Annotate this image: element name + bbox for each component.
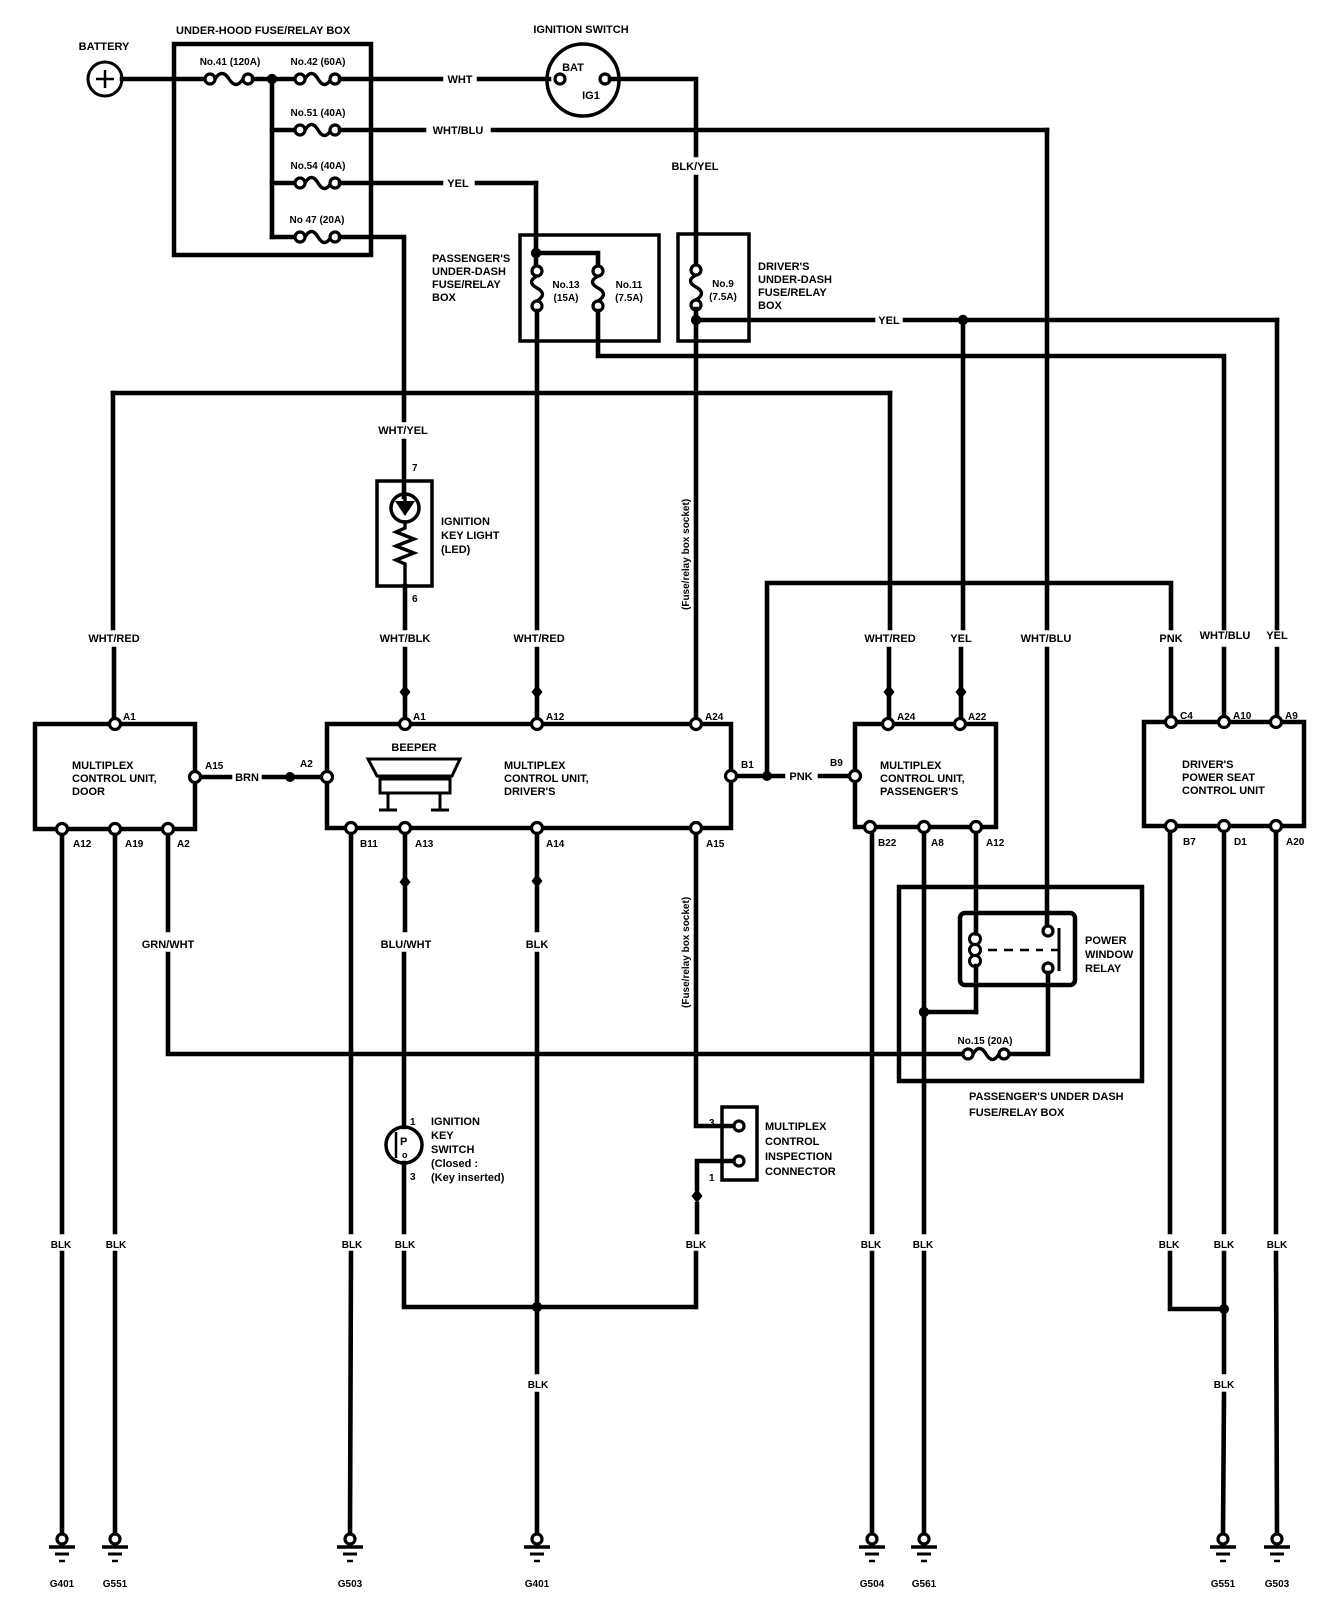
- pin A12 passengers: [971, 822, 1005, 850]
- pin A8 passengers: [919, 822, 945, 850]
- svg-text:1: 1: [410, 1117, 416, 1128]
- svg-text:A15: A15: [706, 839, 725, 850]
- fuse No.9 (7.5A): [691, 234, 737, 310]
- under-hood fuse/relay box: [174, 25, 371, 255]
- svg-text:BLK: BLK: [106, 1240, 127, 1251]
- svg-text:FUSE/RELAY: FUSE/RELAY: [432, 279, 501, 291]
- svg-text:No.15 (20A): No.15 (20A): [957, 1036, 1012, 1047]
- svg-text:WHT/BLK: WHT/BLK: [380, 633, 431, 645]
- ground G561: [911, 1534, 937, 1590]
- wire BLK/YEL fuse9 to driver A24: [694, 309, 699, 718]
- svg-text:(Key inserted): (Key inserted): [431, 1172, 505, 1184]
- svg-text:(Fuse/relay box socket): (Fuse/relay box socket): [681, 897, 692, 1008]
- wire BLK seat D1 to G551: [1214, 832, 1235, 1533]
- svg-text:WHT/RED: WHT/RED: [513, 633, 564, 645]
- wire fuse No.11 to A10 (WHT/BLU): [598, 311, 1250, 718]
- svg-text:No.42 (60A): No.42 (60A): [290, 57, 345, 68]
- svg-text:KEY: KEY: [431, 1130, 454, 1142]
- svg-text:A9: A9: [1285, 711, 1298, 722]
- svg-text:No.13: No.13: [552, 280, 580, 291]
- pin B7 seat: [1166, 821, 1197, 849]
- svg-text:A2: A2: [177, 839, 190, 850]
- relay switch: [988, 926, 1060, 973]
- ground G504: [859, 1534, 885, 1590]
- wire WHT: [340, 74, 549, 86]
- svg-text:BLK: BLK: [686, 1240, 707, 1251]
- pin A12 drivers: [532, 712, 565, 730]
- wire BLK inspection pin1 to bottom bus: [686, 1161, 733, 1307]
- svg-text:POWER: POWER: [1085, 935, 1127, 947]
- svg-text:6: 6: [412, 594, 418, 605]
- svg-text:CONTROL UNIT,: CONTROL UNIT,: [72, 773, 157, 785]
- svg-text:B9: B9: [830, 758, 843, 769]
- svg-text:D1: D1: [1234, 837, 1247, 848]
- pin A2 door: [163, 824, 191, 851]
- wire WHT/RED left to door A1: [88, 393, 139, 718]
- wire WHT/BLK to driver A1: [380, 586, 431, 718]
- connector marker on A22 wire: [956, 685, 967, 699]
- wire fuse41 to fuse42: [253, 77, 295, 82]
- wire YEL down to A9: [1266, 320, 1288, 718]
- wire BLK/YEL: [671, 161, 718, 234]
- svg-text:YEL: YEL: [447, 178, 469, 190]
- multiplex control unit passengers: [855, 724, 996, 827]
- fuse No.41 (120A): [200, 57, 261, 85]
- svg-text:BATTERY: BATTERY: [79, 41, 130, 53]
- pin A2 drivers: [300, 759, 333, 783]
- svg-text:A22: A22: [968, 712, 987, 723]
- pin A14 drivers: [532, 823, 565, 851]
- ignition key switch: [386, 1116, 505, 1184]
- svg-text:PASSENGER'S UNDER DASH: PASSENGER'S UNDER DASH: [969, 1091, 1124, 1103]
- drivers power seat control unit: [1144, 722, 1304, 826]
- wire GRN/WHT door A2 to fuse15 run: [142, 835, 963, 1054]
- node YEL junction in passenger box: [531, 248, 541, 258]
- svg-text:BLU/WHT: BLU/WHT: [381, 939, 432, 951]
- wire drivers A15 to inspection connector pin 3: [696, 834, 732, 1126]
- svg-text:A2: A2: [300, 759, 313, 770]
- svg-text:A20: A20: [1286, 837, 1305, 848]
- svg-text:G551: G551: [1211, 1579, 1236, 1590]
- svg-text:BLK: BLK: [395, 1240, 416, 1251]
- wire BRN A15 to A2: [200, 772, 322, 784]
- wire BLK passengers B22 to G504: [861, 833, 882, 1533]
- battery: [79, 41, 130, 96]
- beeper: [368, 742, 460, 810]
- svg-text:PASSENGER'S: PASSENGER'S: [880, 786, 958, 798]
- svg-text:7: 7: [412, 463, 418, 474]
- svg-text:WHT: WHT: [447, 74, 472, 86]
- wire YEL mid row: [696, 315, 1277, 327]
- node junction bottom bus: [532, 1302, 542, 1312]
- wire BLK door A19 to G551: [106, 835, 127, 1533]
- pin B11 drivers: [346, 823, 379, 851]
- svg-text:CONTROL UNIT,: CONTROL UNIT,: [880, 773, 965, 785]
- svg-text:BLK: BLK: [526, 939, 549, 951]
- svg-text:CONTROL UNIT,: CONTROL UNIT,: [504, 773, 589, 785]
- ground G401: [49, 1534, 75, 1590]
- fuse No.13 (15A): [532, 266, 581, 311]
- wire WHT/YEL from fuse47: [340, 237, 428, 497]
- pin A20 seat: [1271, 821, 1305, 849]
- svg-text:3: 3: [709, 1118, 715, 1129]
- svg-text:MULTIPLEX: MULTIPLEX: [880, 760, 942, 772]
- svg-text:G503: G503: [338, 1579, 363, 1590]
- svg-text:BLK: BLK: [528, 1380, 549, 1391]
- svg-text:MULTIPLEX: MULTIPLEX: [765, 1121, 827, 1133]
- svg-text:A8: A8: [931, 838, 944, 849]
- svg-text:No.9: No.9: [712, 279, 734, 290]
- svg-text:No.54 (40A): No.54 (40A): [290, 161, 345, 172]
- wire passengers A12 to relay coil: [974, 833, 979, 930]
- svg-text:1: 1: [709, 1173, 715, 1184]
- wire to fuse No.11: [536, 253, 598, 266]
- svg-text:G561: G561: [912, 1579, 937, 1590]
- svg-text:IG1: IG1: [582, 90, 600, 102]
- svg-text:YEL: YEL: [950, 633, 972, 645]
- ground G551: [102, 1534, 128, 1590]
- svg-text:(7.5A): (7.5A): [615, 293, 643, 304]
- svg-text:o: o: [402, 1150, 408, 1160]
- wire PNK B1 to B9: [738, 771, 850, 783]
- svg-text:BLK: BLK: [913, 1240, 934, 1251]
- wire WHT/RED right to passenger A24: [864, 393, 915, 718]
- resistor in LED unit: [396, 522, 414, 586]
- svg-text:UNDER-DASH: UNDER-DASH: [758, 274, 832, 286]
- connector marker on A12 wire: [532, 685, 543, 699]
- svg-text:BLK: BLK: [51, 1240, 72, 1251]
- svg-text:No.41 (120A): No.41 (120A): [200, 57, 261, 68]
- node BRN marker: [285, 772, 295, 782]
- node YEL junction mid: [958, 315, 968, 325]
- svg-text:BAT: BAT: [562, 62, 584, 74]
- svg-text:IGNITION SWITCH: IGNITION SWITCH: [533, 24, 628, 36]
- ground G503: [337, 1534, 363, 1590]
- ground G503: [1264, 1534, 1290, 1590]
- svg-text:FUSE/RELAY: FUSE/RELAY: [758, 287, 827, 299]
- svg-text:BLK: BLK: [1214, 1380, 1235, 1391]
- wire battery to fuse box: [122, 77, 205, 82]
- svg-text:WHT/BLU: WHT/BLU: [1021, 633, 1072, 645]
- svg-text:WHT/BLU: WHT/BLU: [433, 125, 484, 137]
- svg-text:DRIVER'S: DRIVER'S: [1182, 759, 1234, 771]
- wire BLK seat B7 to D1 bus: [1159, 832, 1224, 1309]
- fuse No.51 (40A): [272, 108, 346, 136]
- svg-text:WHT/BLU: WHT/BLU: [1200, 630, 1251, 642]
- svg-text:A1: A1: [123, 712, 136, 723]
- svg-text:POWER SEAT: POWER SEAT: [1182, 772, 1255, 784]
- svg-text:(Closed :: (Closed :: [431, 1158, 478, 1170]
- svg-text:UNDER-DASH: UNDER-DASH: [432, 266, 506, 278]
- wire BLK seat A20 to G503: [1267, 832, 1288, 1533]
- pin A19 door: [110, 824, 144, 851]
- pin A12 door: [57, 824, 92, 851]
- svg-text:DRIVER'S: DRIVER'S: [504, 786, 556, 798]
- wire BLK drivers B11 to G503: [342, 834, 363, 1533]
- pin B22 passengers: [865, 822, 897, 850]
- svg-text:WHT/RED: WHT/RED: [864, 633, 915, 645]
- svg-text:BLK: BLK: [1214, 1240, 1235, 1251]
- pin A15 door: [190, 761, 224, 783]
- svg-text:DOOR: DOOR: [72, 786, 105, 798]
- svg-text:PNK: PNK: [789, 771, 812, 783]
- svg-text:CONTROL: CONTROL: [765, 1136, 820, 1148]
- svg-text:C4: C4: [1180, 711, 1193, 722]
- svg-text:MULTIPLEX: MULTIPLEX: [72, 760, 134, 772]
- pin B1 drivers: [726, 760, 755, 782]
- svg-text:WHT/RED: WHT/RED: [88, 633, 139, 645]
- wire ignition switch IG1 to BLK/YEL drop: [610, 79, 696, 155]
- power window relay: [960, 913, 1134, 985]
- svg-text:GRN/WHT: GRN/WHT: [142, 939, 195, 951]
- svg-text:G401: G401: [525, 1579, 550, 1590]
- multiplex control unit drivers: [327, 724, 731, 828]
- svg-text:P: P: [400, 1136, 407, 1148]
- fuse No.42 (60A): [290, 57, 345, 85]
- svg-text:BEEPER: BEEPER: [391, 742, 436, 754]
- svg-text:KEY LIGHT: KEY LIGHT: [441, 530, 500, 542]
- fuse No.15 (20A): [957, 1036, 1012, 1060]
- node PNK junction: [762, 771, 772, 781]
- svg-text:G504: G504: [860, 1579, 885, 1590]
- svg-text:B1: B1: [741, 760, 754, 771]
- ignition switch: [533, 24, 628, 116]
- wire relay coil to A8 ground line: [924, 1010, 976, 1015]
- ignition key light LED: [377, 463, 500, 586]
- svg-text:B22: B22: [878, 838, 897, 849]
- wire BLU/WHT drivers A13 to key switch: [381, 834, 432, 1127]
- svg-text:CONNECTOR: CONNECTOR: [765, 1166, 836, 1178]
- svg-text:(LED): (LED): [441, 544, 471, 556]
- pin D1 seat: [1219, 821, 1248, 849]
- svg-text:YEL: YEL: [878, 315, 900, 327]
- ground G551: [1210, 1534, 1236, 1590]
- svg-text:CONTROL UNIT: CONTROL UNIT: [1182, 785, 1265, 797]
- pin A13 drivers: [400, 823, 434, 851]
- wire BLK key switch to bottom bus: [395, 1163, 695, 1307]
- svg-text:SWITCH: SWITCH: [431, 1144, 474, 1156]
- svg-text:A14: A14: [546, 839, 565, 850]
- svg-text:PNK: PNK: [1159, 633, 1182, 645]
- wire YEL top: [340, 178, 536, 271]
- passenger under-dash fuse/relay box (top): [432, 235, 659, 341]
- svg-text:A1: A1: [413, 712, 426, 723]
- svg-text:No 47 (20A): No 47 (20A): [289, 215, 344, 226]
- svg-text:IGNITION: IGNITION: [441, 516, 490, 528]
- relay coil: [970, 925, 981, 1012]
- svg-text:A13: A13: [415, 839, 434, 850]
- svg-text:(Fuse/relay box socket): (Fuse/relay box socket): [681, 499, 692, 610]
- svg-text:A12: A12: [73, 839, 92, 850]
- svg-text:BLK: BLK: [1267, 1240, 1288, 1251]
- wire BLK door A12 to G401: [51, 835, 72, 1533]
- svg-text:PASSENGER'S: PASSENGER'S: [432, 253, 510, 265]
- svg-text:G401: G401: [50, 1579, 75, 1590]
- passenger under-dash fuse/relay box (lower): [899, 887, 1142, 1119]
- wire row A (WHT/RED bus): [113, 391, 890, 396]
- pin A24 drivers: [691, 712, 724, 730]
- wire WHT/RED from fuse No.13 to driver A12: [513, 311, 564, 718]
- svg-text:B7: B7: [1183, 837, 1196, 848]
- svg-text:3: 3: [410, 1172, 416, 1183]
- wire WHT/BLU top: [340, 125, 1047, 137]
- fuse No.54 (40A): [272, 161, 346, 189]
- svg-text:A24: A24: [897, 712, 916, 723]
- pin A22 passengers: [955, 712, 987, 730]
- svg-text:UNDER-HOOD FUSE/RELAY BOX: UNDER-HOOD FUSE/RELAY BOX: [176, 25, 351, 37]
- svg-text:BOX: BOX: [758, 300, 783, 312]
- svg-text:BLK: BLK: [861, 1240, 882, 1251]
- wire YEL down to passenger A22: [950, 320, 972, 718]
- wire WHT/BLU down to relay: [1021, 130, 1072, 926]
- svg-text:YEL: YEL: [1266, 630, 1288, 642]
- svg-text:DRIVER'S: DRIVER'S: [758, 261, 810, 273]
- ground G401: [524, 1534, 550, 1590]
- pin B9 passengers: [830, 758, 861, 782]
- wire BLK drivers A14 to G401: [526, 834, 549, 1533]
- pin A10 seat: [1219, 711, 1252, 728]
- svg-text:BOX: BOX: [432, 292, 457, 304]
- svg-text:B11: B11: [360, 839, 378, 850]
- svg-text:G551: G551: [103, 1579, 128, 1590]
- driver under-dash fuse/relay box: [678, 234, 832, 341]
- multiplex control inspection connector: [709, 1107, 836, 1184]
- connector marker on A1 wire: [400, 685, 411, 699]
- pin A1 drivers: [400, 712, 427, 730]
- svg-text:BRN: BRN: [235, 772, 259, 784]
- fuse No 47 (20A): [272, 215, 345, 243]
- svg-text:BLK: BLK: [1159, 1240, 1180, 1251]
- svg-text:BLK: BLK: [342, 1240, 363, 1251]
- node relay coil junction: [919, 1007, 929, 1017]
- svg-text:MULTIPLEX: MULTIPLEX: [504, 760, 566, 772]
- svg-text:RELAY: RELAY: [1085, 963, 1122, 975]
- svg-text:A10: A10: [1233, 711, 1252, 722]
- svg-text:A12: A12: [986, 838, 1005, 849]
- multiplex control unit door: [35, 724, 195, 829]
- connector marker on A24 wire: [884, 685, 895, 699]
- svg-text:WHT/YEL: WHT/YEL: [378, 425, 428, 437]
- svg-text:FUSE/RELAY BOX: FUSE/RELAY BOX: [969, 1107, 1065, 1119]
- pin A24 passengers: [883, 712, 916, 730]
- pin A1 door: [110, 712, 137, 730]
- svg-text:IGNITION: IGNITION: [431, 1116, 480, 1128]
- fuse No.11 (7.5A): [593, 266, 643, 311]
- pin A15 drivers bottom: [691, 823, 725, 851]
- svg-text:BLK/YEL: BLK/YEL: [671, 161, 718, 173]
- svg-text:A12: A12: [546, 712, 565, 723]
- svg-text:WINDOW: WINDOW: [1085, 949, 1134, 961]
- wire PNK riser and top run to C4: [767, 583, 1183, 776]
- svg-text:INSPECTION: INSPECTION: [765, 1151, 832, 1163]
- pin A9 seat: [1271, 711, 1299, 728]
- svg-text:A15: A15: [205, 761, 224, 772]
- wire bus vertical: [270, 79, 275, 237]
- node junction D1 bus: [1219, 1304, 1229, 1314]
- wire BLK passengers A8 to G561: [913, 833, 934, 1533]
- pin C4 seat: [1166, 711, 1194, 728]
- svg-text:No.51 (40A): No.51 (40A): [290, 108, 345, 119]
- svg-text:(15A): (15A): [553, 293, 578, 304]
- node junction bus: [267, 74, 277, 84]
- svg-text:A19: A19: [125, 839, 144, 850]
- svg-text:(7.5A): (7.5A): [709, 292, 737, 303]
- svg-text:A24: A24: [705, 712, 724, 723]
- svg-text:No.11: No.11: [616, 280, 643, 291]
- svg-text:G503: G503: [1265, 1579, 1290, 1590]
- wire relay switch to fuse15: [1009, 973, 1048, 1054]
